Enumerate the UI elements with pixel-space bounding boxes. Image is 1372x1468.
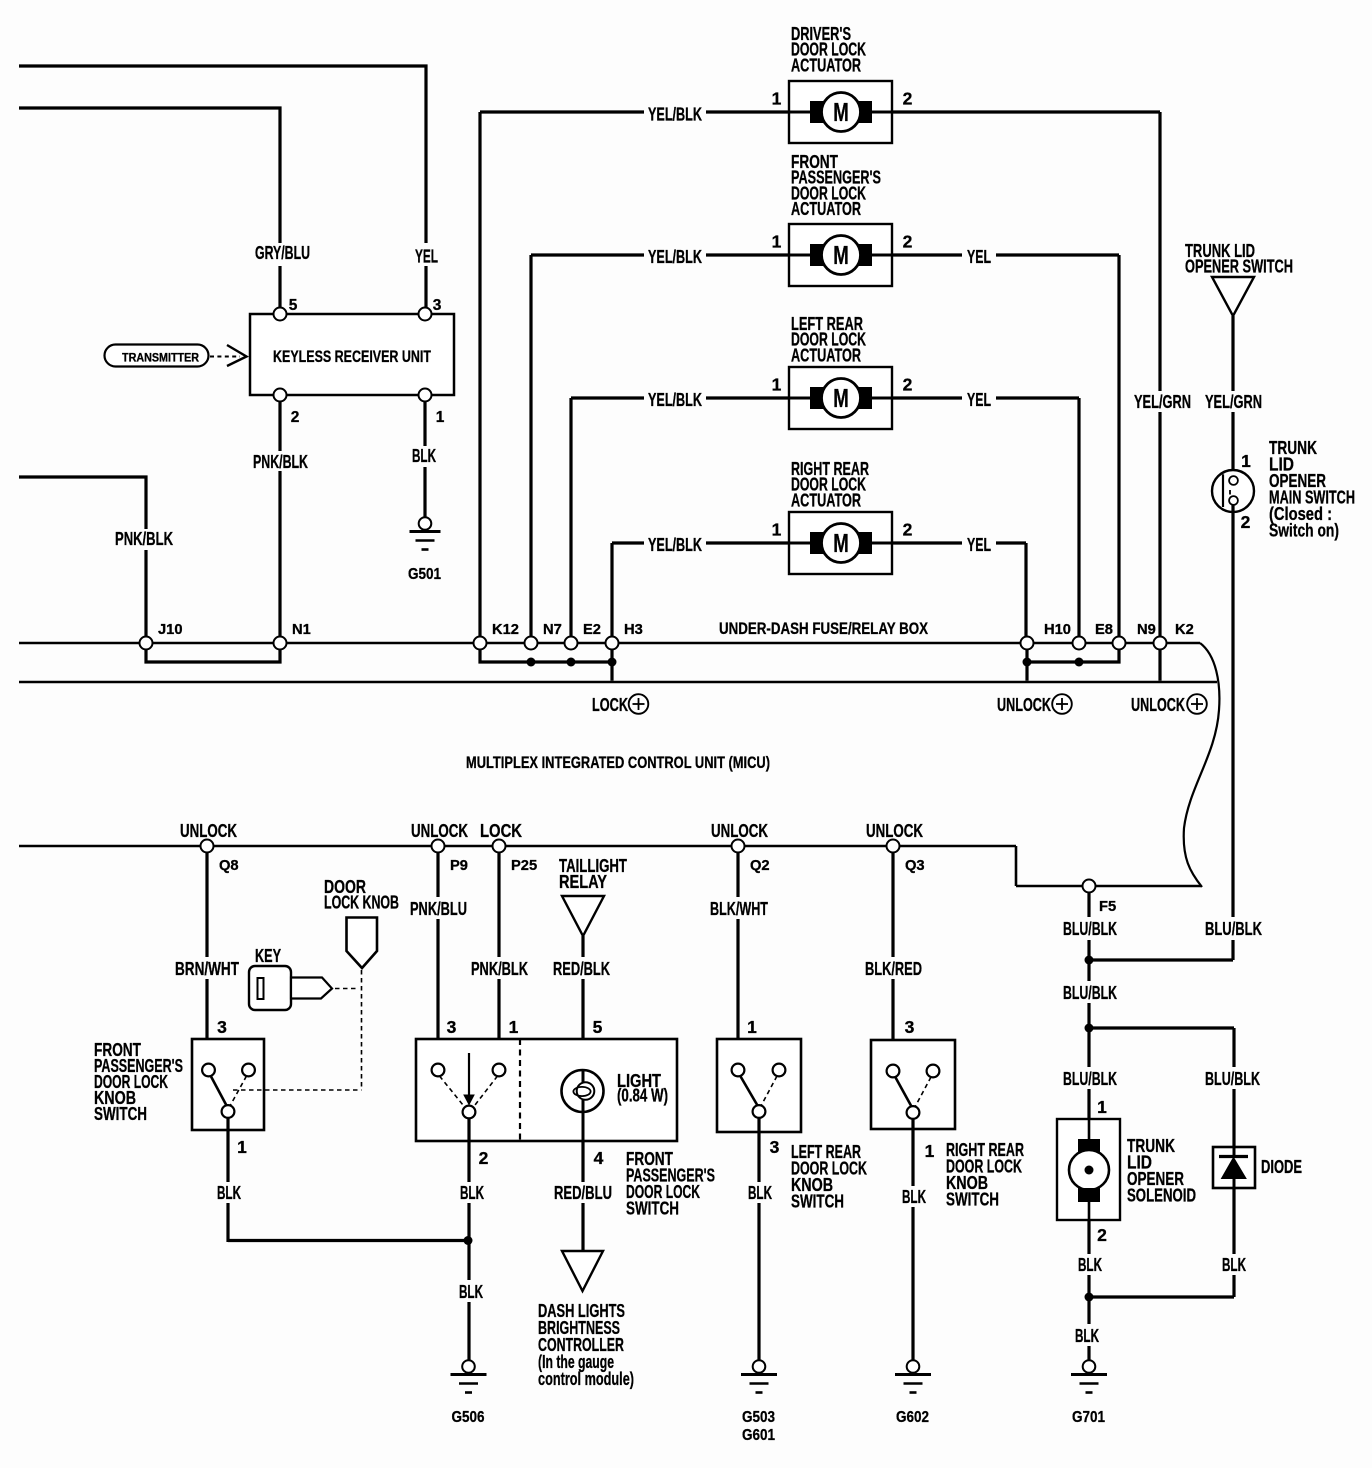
wire YEL left rear actuator pin 2 to E8 bbox=[892, 398, 1079, 637]
svg-text:YEL: YEL bbox=[967, 534, 991, 555]
wire YEL/BLK driver's actuator pin 1 to K12 bbox=[480, 112, 789, 637]
svg-text:1: 1 bbox=[772, 89, 782, 109]
svg-text:BLK/WHT: BLK/WHT bbox=[710, 898, 768, 919]
ground G503 G601 bbox=[741, 1360, 777, 1444]
keyless receiver pin 5 bbox=[274, 297, 298, 321]
MICU top edge bbox=[19, 681, 1217, 684]
svg-text:1: 1 bbox=[772, 375, 782, 395]
svg-text:SWITCH: SWITCH bbox=[626, 1198, 679, 1219]
wire jumper to trunk main switch wire bbox=[1089, 958, 1233, 961]
svg-text:LOCK: LOCK bbox=[480, 820, 523, 841]
svg-text:BLU/BLK: BLU/BLK bbox=[1205, 918, 1263, 939]
front passenger's door lock knob switch box bbox=[192, 1039, 264, 1130]
svg-text:PNK/BLK: PNK/BLK bbox=[253, 451, 309, 472]
svg-text:BLK: BLK bbox=[460, 1182, 485, 1203]
svg-text:1: 1 bbox=[509, 1017, 519, 1037]
svg-text:1: 1 bbox=[1097, 1097, 1107, 1117]
svg-text:MULTIPLEX INTEGRATED CONTROL U: MULTIPLEX INTEGRATED CONTROL UNIT (MICU) bbox=[466, 754, 770, 772]
right rear door lock actuator (motor) bbox=[789, 512, 892, 574]
svg-text:1: 1 bbox=[747, 1017, 757, 1037]
svg-text:P25: P25 bbox=[511, 858, 537, 874]
svg-text:M: M bbox=[833, 385, 849, 413]
svg-text:BLU/BLK: BLU/BLK bbox=[1063, 982, 1118, 1003]
svg-text:BLU/BLK: BLU/BLK bbox=[1063, 918, 1118, 939]
front passenger's door lock switch label bbox=[626, 1148, 715, 1219]
connector P9 bbox=[432, 840, 468, 875]
light label bbox=[617, 1070, 668, 1106]
ground G501 bbox=[408, 517, 441, 583]
svg-text:BLK: BLK bbox=[748, 1182, 773, 1203]
svg-text:E2: E2 bbox=[583, 622, 601, 638]
wire BLU/BLK branch to diode bbox=[1232, 1028, 1235, 1147]
svg-text:UNLOCK: UNLOCK bbox=[711, 820, 769, 841]
diode bbox=[1213, 1147, 1255, 1188]
svg-text:G601: G601 bbox=[742, 1427, 775, 1444]
connector Q8 bbox=[201, 840, 239, 875]
svg-text:GRY/BLU: GRY/BLU bbox=[255, 242, 310, 263]
svg-text:K12: K12 bbox=[492, 622, 519, 638]
svg-text:M: M bbox=[833, 530, 849, 558]
svg-text:4: 4 bbox=[594, 1148, 604, 1168]
svg-text:G501: G501 bbox=[408, 566, 441, 583]
wire YEL right rear actuator pin 2 to H10 bbox=[892, 543, 1026, 637]
junction dot to diode branch bbox=[1085, 1024, 1094, 1033]
wire YEL/BLK left rear actuator pin 1 to E2 bbox=[571, 398, 789, 637]
ground G506 bbox=[451, 1360, 487, 1426]
svg-text:UNDER-DASH FUSE/RELAY BOX: UNDER-DASH FUSE/RELAY BOX bbox=[719, 620, 928, 638]
svg-text:G701: G701 bbox=[1072, 1409, 1105, 1426]
connector P25 bbox=[493, 840, 538, 875]
trunk lid opener solenoid bbox=[1057, 1119, 1120, 1220]
svg-text:BRN/WHT: BRN/WHT bbox=[175, 958, 239, 979]
svg-text:BLK: BLK bbox=[459, 1281, 484, 1302]
key symbol bbox=[249, 966, 332, 1010]
wire BLK left rear knob switch pin 3 to ground G503/G601 bbox=[757, 1119, 760, 1361]
ground G602 bbox=[895, 1360, 931, 1426]
svg-text:BLK: BLK bbox=[902, 1186, 927, 1207]
svg-text:3: 3 bbox=[447, 1017, 457, 1037]
door lock knob symbol bbox=[347, 918, 378, 969]
wire BLK solenoid pin 2 to ground G701 bbox=[1087, 1220, 1090, 1360]
keyless receiver pin 3 bbox=[419, 297, 442, 321]
junction dot H3 bbox=[608, 658, 617, 667]
left rear door lock knob switch contacts and blade bbox=[732, 1064, 786, 1118]
svg-text:UNLOCK: UNLOCK bbox=[411, 820, 469, 841]
svg-text:G503: G503 bbox=[742, 1409, 775, 1426]
svg-text:2: 2 bbox=[1097, 1225, 1107, 1245]
svg-text:PNK/BLU: PNK/BLU bbox=[410, 898, 467, 919]
svg-text:1: 1 bbox=[1241, 451, 1251, 471]
svg-text:Q2: Q2 bbox=[750, 858, 770, 874]
driver's door lock actuator label bbox=[791, 23, 867, 75]
svg-text:J10: J10 bbox=[158, 622, 183, 638]
bus H10-E8-N9 to MICU UNLOCK bbox=[1027, 650, 1119, 681]
right rear door lock knob switch label bbox=[946, 1139, 1024, 1210]
wire driver's actuator pin 2 to K2 bbox=[892, 112, 1160, 637]
wire PNK/BLK feed to connector J10 bbox=[19, 477, 146, 637]
svg-text:SWITCH: SWITCH bbox=[791, 1191, 844, 1212]
wire jumper to diode branch bbox=[1089, 1026, 1234, 1029]
svg-text:1: 1 bbox=[772, 232, 782, 252]
wire PNK/BLU P9 to front passenger's door lock switch pin 3 bbox=[436, 853, 439, 1064]
connector N7 bbox=[525, 622, 562, 650]
connector Q2 bbox=[732, 840, 770, 875]
junction dot N7 bbox=[527, 658, 536, 667]
svg-text:BLK: BLK bbox=[412, 445, 437, 466]
left rear door lock actuator (motor) bbox=[789, 367, 892, 429]
connector H3 bbox=[606, 622, 643, 650]
svg-text:YEL/BLK: YEL/BLK bbox=[648, 104, 703, 125]
svg-text:2: 2 bbox=[291, 409, 300, 426]
svg-text:BLK/RED: BLK/RED bbox=[865, 958, 922, 979]
dash lights brightness controller label bbox=[538, 1300, 634, 1389]
connector E2 bbox=[565, 622, 601, 650]
junction dot H10 bbox=[1023, 658, 1032, 667]
under-dash fuse/relay box top edge bbox=[19, 642, 1200, 645]
svg-text:SOLENOID: SOLENOID bbox=[1127, 1185, 1196, 1206]
wire PNK/BLK keyless pin 2 to connector N1 bbox=[278, 402, 281, 637]
connector E8 bbox=[1073, 622, 1113, 650]
connector J10 bbox=[140, 622, 183, 650]
svg-text:PNK/BLK: PNK/BLK bbox=[471, 958, 529, 979]
light bulb (0.84 W) bbox=[562, 1070, 604, 1141]
svg-text:LOCK KNOB: LOCK KNOB bbox=[324, 892, 399, 913]
junction dot diode return bbox=[1085, 1293, 1094, 1302]
svg-text:H10: H10 bbox=[1044, 622, 1071, 638]
svg-text:KEY: KEY bbox=[255, 945, 281, 966]
dashed link key to knob line bbox=[335, 988, 358, 990]
svg-text:RED/BLK: RED/BLK bbox=[553, 958, 611, 979]
svg-text:2: 2 bbox=[903, 89, 913, 109]
svg-text:LOCK: LOCK bbox=[592, 694, 629, 715]
svg-text:H3: H3 bbox=[624, 622, 643, 638]
wire BLU/BLK F5 to trunk lid opener solenoid bbox=[1087, 893, 1090, 1120]
front passenger's door lock switch box bbox=[416, 1039, 677, 1141]
svg-text:2: 2 bbox=[903, 375, 913, 395]
svg-text:5: 5 bbox=[593, 1017, 603, 1037]
svg-text:KEYLESS RECEIVER UNIT: KEYLESS RECEIVER UNIT bbox=[273, 347, 432, 366]
svg-text:1: 1 bbox=[237, 1137, 247, 1157]
wire BLK diode to junction bbox=[1232, 1188, 1235, 1297]
taillight relay label bbox=[559, 855, 627, 892]
wire BLK/WHT Q2 to left rear door lock knob switch bbox=[736, 853, 739, 1064]
svg-text:BLU/BLK: BLU/BLK bbox=[1205, 1068, 1261, 1089]
wire BLK door lock switch pin 2 to ground G506 bbox=[467, 1119, 470, 1361]
svg-text:2: 2 bbox=[903, 520, 913, 540]
trunk lid opener main switch label bbox=[1269, 437, 1355, 541]
transmitter bbox=[105, 345, 209, 367]
svg-text:K2: K2 bbox=[1175, 622, 1194, 638]
svg-text:TRANSMITTER: TRANSMITTER bbox=[122, 350, 199, 364]
trunk lid opener main switch bbox=[1212, 470, 1254, 512]
svg-text:DIODE: DIODE bbox=[1261, 1156, 1302, 1177]
dashed link knob to switches bbox=[233, 970, 362, 1090]
svg-text:ACTUATOR: ACTUATOR bbox=[791, 198, 861, 219]
svg-text:YEL/GRN: YEL/GRN bbox=[1134, 391, 1191, 412]
connector N9 bbox=[1113, 622, 1156, 650]
svg-text:YEL/BLK: YEL/BLK bbox=[648, 389, 703, 410]
node LOCK + bbox=[592, 694, 648, 715]
svg-text:E8: E8 bbox=[1095, 622, 1113, 638]
svg-text:3: 3 bbox=[217, 1017, 227, 1037]
wire K2 to MICU UNLOCK bbox=[1158, 650, 1161, 681]
svg-text:2: 2 bbox=[479, 1148, 489, 1168]
MICU bottom edge bbox=[19, 846, 1201, 886]
wire YEL front passenger's actuator pin 2 to N9 bbox=[892, 255, 1119, 637]
svg-text:YEL/BLK: YEL/BLK bbox=[648, 246, 703, 267]
svg-text:N7: N7 bbox=[543, 622, 562, 638]
svg-text:(0.84 W): (0.84 W) bbox=[617, 1085, 668, 1106]
svg-text:M: M bbox=[833, 242, 849, 270]
svg-text:2: 2 bbox=[1241, 512, 1251, 532]
node UNLOCK + (H10) bbox=[997, 694, 1072, 715]
svg-text:UNLOCK: UNLOCK bbox=[1131, 694, 1186, 715]
svg-text:SWITCH: SWITCH bbox=[946, 1189, 999, 1210]
svg-text:N1: N1 bbox=[292, 622, 311, 638]
trunk lid opener solenoid label bbox=[1127, 1135, 1196, 1206]
door lock switch contacts and arrow bbox=[432, 1053, 506, 1118]
svg-text:PNK/BLK: PNK/BLK bbox=[115, 528, 174, 549]
left rear door lock knob switch label bbox=[791, 1141, 868, 1212]
trunk lid opener switch label bbox=[1185, 240, 1293, 277]
connector K2 bbox=[1154, 622, 1194, 650]
svg-text:1: 1 bbox=[772, 520, 782, 540]
ground G701 bbox=[1071, 1360, 1107, 1426]
connector H10 bbox=[1021, 622, 1071, 650]
svg-text:UNLOCK: UNLOCK bbox=[866, 820, 924, 841]
svg-text:YEL/GRN: YEL/GRN bbox=[1205, 391, 1262, 412]
svg-text:F5: F5 bbox=[1099, 899, 1116, 915]
trunk lid opener switch connector triangle bbox=[1212, 277, 1254, 316]
front passenger's door lock knob switch label bbox=[94, 1039, 183, 1124]
wire GRY/BLU feed to keyless receiver pin 5 bbox=[19, 108, 280, 308]
svg-text:1: 1 bbox=[436, 409, 445, 426]
svg-text:RED/BLU: RED/BLU bbox=[554, 1182, 612, 1203]
dashed partition bbox=[519, 1039, 521, 1141]
svg-text:control module): control module) bbox=[538, 1368, 634, 1389]
bus J10 to N1 bbox=[146, 650, 280, 663]
dashed arrow transmitter to receiver bbox=[210, 345, 247, 366]
svg-text:ACTUATOR: ACTUATOR bbox=[791, 54, 861, 75]
wire BLK right rear knob switch pin 1 to ground G602 bbox=[911, 1119, 914, 1361]
svg-text:BLK: BLK bbox=[217, 1182, 242, 1203]
svg-text:Q3: Q3 bbox=[905, 858, 925, 874]
wire YEL feed to keyless receiver pin 3 bbox=[19, 66, 426, 308]
svg-text:G602: G602 bbox=[896, 1409, 929, 1426]
svg-text:5: 5 bbox=[289, 297, 298, 314]
svg-text:UNLOCK: UNLOCK bbox=[180, 820, 238, 841]
wire jumper diode return bbox=[1089, 1295, 1234, 1298]
svg-text:3: 3 bbox=[770, 1137, 780, 1157]
svg-text:ACTUATOR: ACTUATOR bbox=[791, 489, 861, 510]
wire RED/BLU door lock switch pin 4 to dash lights controller bbox=[581, 1141, 584, 1251]
junction dot pin2/knob-switch bbox=[464, 1236, 473, 1245]
svg-text:OPENER SWITCH: OPENER SWITCH bbox=[1185, 256, 1293, 277]
svg-text:2: 2 bbox=[903, 232, 913, 252]
wire BLK knob switch pin 1 to junction bbox=[228, 1118, 467, 1243]
svg-text:M: M bbox=[833, 99, 849, 127]
MICU torn right edge bbox=[1184, 643, 1220, 887]
node UNLOCK + (K2) bbox=[1131, 694, 1207, 715]
door lock knob label bbox=[324, 876, 399, 913]
svg-text:RELAY: RELAY bbox=[559, 871, 607, 892]
junction dot to main switch branch bbox=[1085, 956, 1094, 965]
driver's door lock actuator (motor) bbox=[789, 81, 892, 143]
front passenger's door lock actuator label bbox=[791, 151, 881, 219]
wire BRN/WHT Q8 to front passenger's door lock knob switch bbox=[205, 853, 208, 1064]
svg-text:ACTUATOR: ACTUATOR bbox=[791, 344, 861, 365]
svg-text:G506: G506 bbox=[452, 1409, 485, 1426]
svg-text:3: 3 bbox=[433, 297, 442, 314]
wire BLK keyless pin 1 to ground G501 bbox=[423, 402, 426, 518]
svg-text:1: 1 bbox=[925, 1141, 935, 1161]
svg-text:YEL: YEL bbox=[415, 246, 438, 267]
svg-text:BLK: BLK bbox=[1222, 1254, 1247, 1275]
connector N1 bbox=[274, 622, 311, 650]
keyless receiver pin 1 bbox=[419, 389, 445, 427]
connector Q3 bbox=[887, 840, 925, 875]
right rear door lock knob switch contacts and blade bbox=[887, 1065, 940, 1119]
wire YEL/GRN trunk lid opener switch to main switch bbox=[1231, 316, 1234, 477]
svg-text:YEL: YEL bbox=[967, 246, 991, 267]
svg-text:BLK: BLK bbox=[1078, 1254, 1103, 1275]
svg-text:YEL: YEL bbox=[967, 389, 991, 410]
left rear door lock knob switch box bbox=[717, 1039, 801, 1132]
svg-text:UNLOCK: UNLOCK bbox=[997, 694, 1052, 715]
wire YEL/BLK front passenger's actuator pin 1 to N7 bbox=[531, 255, 789, 637]
junction dot E8 bbox=[1075, 658, 1084, 667]
front passenger's door lock actuator (motor) bbox=[789, 224, 892, 286]
connector K12 bbox=[474, 622, 519, 650]
dash lights brightness controller triangle bbox=[562, 1251, 603, 1291]
wire YEL/BLK right rear actuator pin 1 to H3 bbox=[612, 543, 789, 637]
svg-text:YEL/BLK: YEL/BLK bbox=[648, 534, 703, 555]
keyless receiver pin 2 bbox=[274, 389, 300, 427]
svg-text:Switch on): Switch on) bbox=[1269, 520, 1339, 541]
svg-text:BLK: BLK bbox=[1075, 1325, 1100, 1346]
keyless receiver unit bbox=[250, 314, 454, 395]
wire PNK/BLK P25 to front passenger's door lock switch pin 1 bbox=[497, 853, 500, 1064]
wire main switch pin 2 down right side bbox=[1231, 505, 1234, 961]
wire RED/BLK taillight relay to light pin 5 bbox=[581, 936, 584, 1068]
svg-text:P9: P9 bbox=[450, 858, 468, 874]
svg-text:SWITCH: SWITCH bbox=[94, 1103, 147, 1124]
left rear door lock actuator label bbox=[791, 313, 867, 365]
right rear door lock knob switch box bbox=[871, 1040, 955, 1129]
right rear door lock actuator label bbox=[791, 458, 869, 510]
bus K12-N7-E2-H3 to MICU LOCK bbox=[480, 650, 612, 681]
svg-text:Q8: Q8 bbox=[219, 858, 239, 874]
junction dot E2 bbox=[567, 658, 576, 667]
wire BLK/RED Q3 to right rear door lock knob switch bbox=[891, 853, 894, 1065]
taillight relay connector triangle bbox=[562, 896, 604, 936]
svg-text:N9: N9 bbox=[1137, 622, 1156, 638]
connector F5 bbox=[1083, 880, 1117, 916]
front passenger's door lock knob switch contacts and blade bbox=[202, 1064, 255, 1118]
svg-text:BLU/BLK: BLU/BLK bbox=[1063, 1068, 1118, 1089]
svg-text:3: 3 bbox=[905, 1017, 915, 1037]
